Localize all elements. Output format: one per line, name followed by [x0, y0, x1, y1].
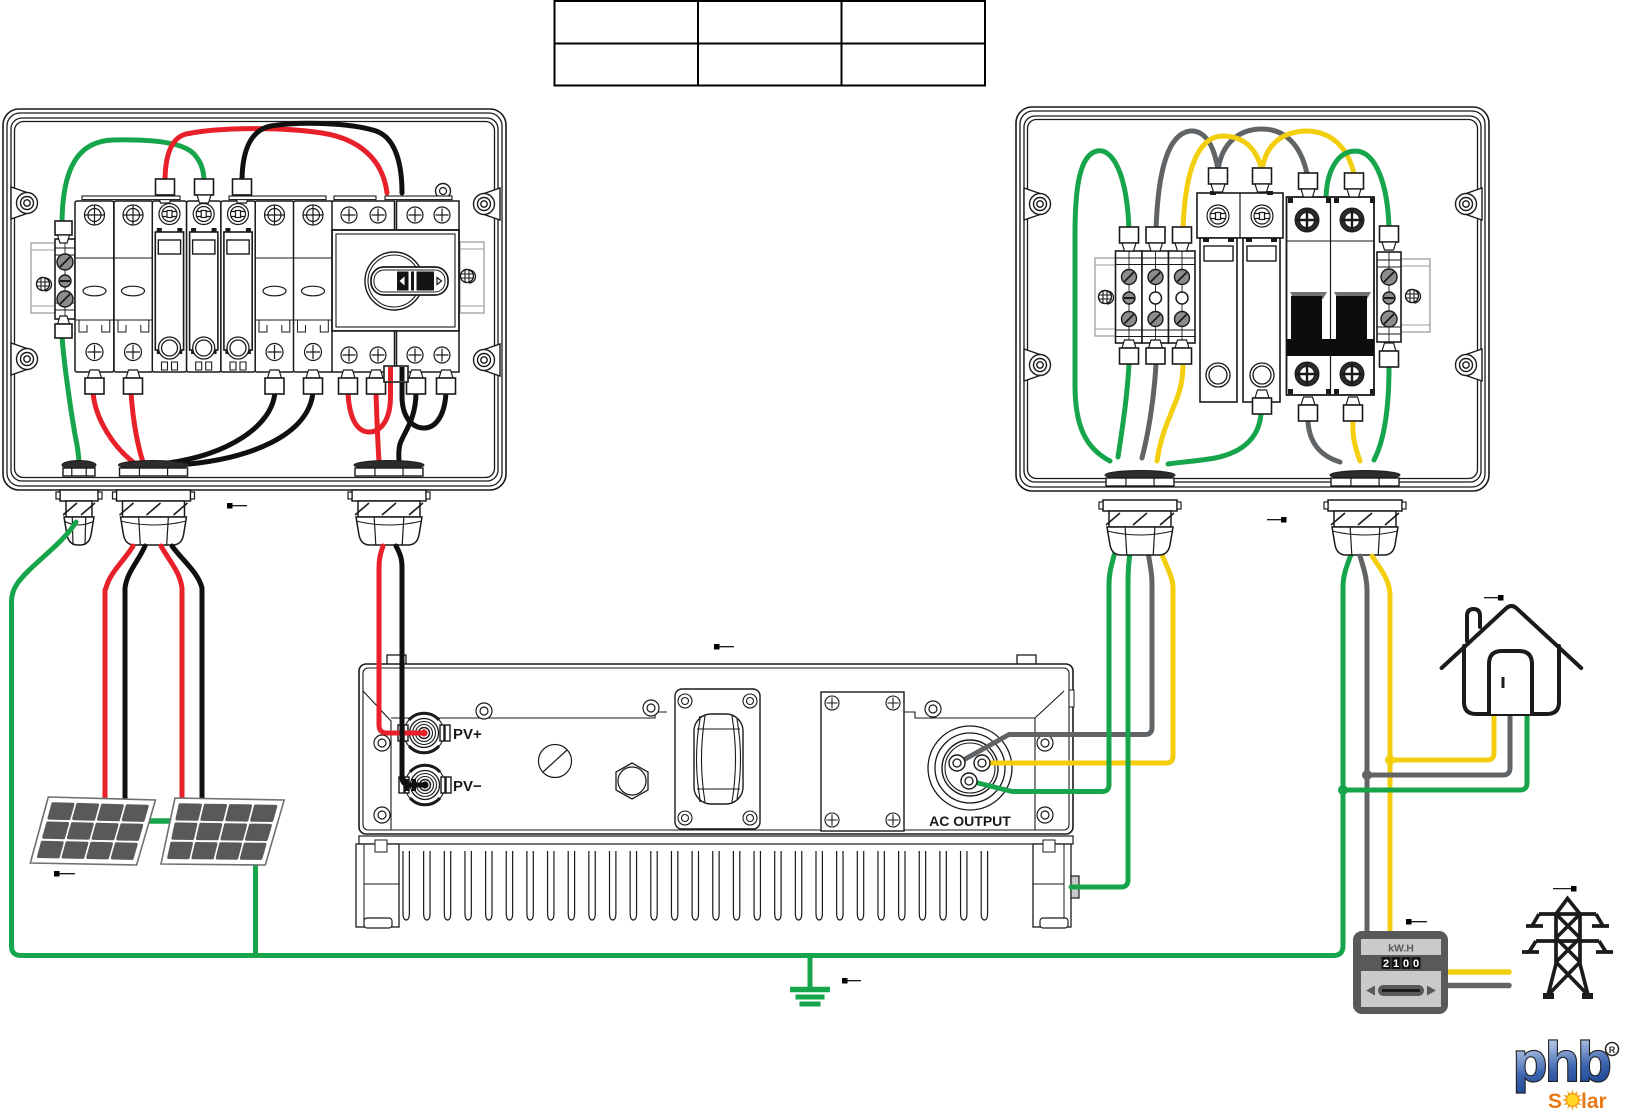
inverter PV+ connector [398, 713, 450, 753]
inverter body [359, 655, 1074, 834]
AC circuit breaker (2-pole) [1287, 197, 1376, 395]
inverter display window [675, 689, 760, 829]
inverter face screws [476, 703, 492, 719]
svg-text:PV−: PV− [453, 778, 482, 795]
kWh meter [1353, 931, 1448, 1014]
wire: green terminal 1 bottom to gland 1 [1118, 364, 1129, 457]
wire: yellow jumper terminal 3 to SPD B top [1183, 136, 1262, 230]
wire: black PV- jumper from SPD3 top over to DC switch input [242, 123, 402, 193]
svg-text:PV+: PV+ [453, 726, 482, 743]
cable gland 1 (inverter side, right box) [1099, 471, 1181, 556]
DIN rail stub left of DC box [31, 243, 57, 313]
junction dot yellow [1385, 755, 1395, 765]
cable gland 2 (grid side, right box) [1324, 471, 1406, 556]
wire: yellow breaker pole 2 bottom to gland 2 [1353, 421, 1360, 461]
wire: gray meter output to grid [1448, 983, 1509, 989]
surge protector module SPD3 (DC SPD) [221, 201, 255, 372]
DC fuse holder F3 [255, 201, 294, 394]
feed-through block under switch [384, 366, 408, 382]
junction dot gray [1362, 770, 1372, 780]
wire: red from switch terminal 2 down to gland C [376, 392, 379, 462]
svg-text:1: 1 [1393, 958, 1399, 970]
enclosure DC combiner box (outer shell) [3, 109, 506, 490]
wire: green from earth terminal down to gland A [62, 336, 79, 464]
AC surge protector (2 modules) [1197, 191, 1283, 402]
wire: red from fuse F1 bottom to gland B [93, 392, 133, 462]
mounting screw boss of DC combiner box [484, 344, 500, 376]
surge protector module SPD1 (DC SPD) [152, 201, 186, 372]
top bus bar segments (left box) [82, 196, 452, 200]
wire: green branch to house [1343, 714, 1527, 790]
earth terminal block (left box) [55, 221, 75, 338]
wire: black from fuse F3 bottom to gland B [168, 392, 275, 463]
DC fuse holder F1 [75, 201, 114, 394]
svg-text:R: R [1609, 1045, 1616, 1055]
wire: PV string 2 positive (red) gland B to panel 2 [161, 546, 182, 800]
wire: green link between panel 1 and panel 2 [145, 818, 175, 824]
wire: yellow terminal 3 bottom to gland 1 [1157, 364, 1183, 461]
wire: red DC+ gland C to inverter PV+ [379, 546, 424, 733]
DIN rail clamp bolt right AC [1406, 290, 1421, 304]
inverter round knockout [539, 745, 572, 778]
svg-text:0: 0 [1413, 958, 1419, 970]
wire: green big loop from terminal 1 top down to gland 1 [1075, 151, 1129, 461]
cable gland A (earth, left box) [56, 461, 102, 546]
enclosure AC combiner box (outer shell) [1016, 107, 1489, 491]
terminal block module TB2 (L) [1142, 227, 1169, 364]
wire: yellow AC N from inverter to right box gland 1 [983, 552, 1173, 763]
inverter hex gland [616, 763, 648, 799]
wire: green AC PE from inverter to right box gland 1 [970, 552, 1115, 792]
wire: PV string 2 negative (black) gland B to panel 2 [172, 546, 202, 800]
solar panel PV2 [161, 798, 284, 865]
wire: gray jumper terminal 2 to SPD A top [1156, 131, 1218, 230]
SPD A top connector [1209, 168, 1228, 184]
callout marker near right box gland [1281, 517, 1287, 523]
top connector of SPD1 [156, 179, 175, 195]
mounting screw boss of AC combiner box [1024, 349, 1040, 381]
DIN rail stub right of AC box [1401, 259, 1430, 332]
DC fuse holder F4 [294, 201, 333, 394]
breaker pole 1 bottom connector [1301, 397, 1315, 405]
breaker pole 2 top connector [1345, 173, 1364, 189]
DIN rail clamp bolt left AC [1099, 291, 1114, 305]
surge protector module SPD2 (DC SPD) [187, 201, 221, 372]
wire: gray AC L from inverter to right box gland 1 [958, 552, 1152, 763]
wire: gray breaker pole 1 bottom to gland 2 [1308, 421, 1340, 462]
mounting screw boss of AC combiner box [1024, 188, 1040, 220]
DIN rail stub right of DC box [460, 242, 484, 313]
svg-text:kW.H: kW.H [1388, 943, 1414, 955]
svg-text:phb: phb [1513, 1030, 1610, 1093]
SPD B top connector [1253, 168, 1272, 184]
callout marker near panel 1 [54, 871, 60, 877]
junction dot green [1338, 785, 1348, 795]
end earth terminal (right box) [1377, 226, 1401, 367]
wire: red PV+ jumper from SPD1 top over to DC switch input [165, 129, 387, 193]
callout marker near house [1498, 595, 1504, 601]
mounting screw boss of AC combiner box [1466, 349, 1482, 381]
wire: yellow N from gland 2 down to kWh meter [1372, 556, 1390, 931]
wire: PV string 1 negative (black) gland B to panel 1 [125, 546, 145, 800]
wire: black U-link switch terminal 4 to feed-through [402, 369, 446, 428]
DIN rail clamp bolt left DC [37, 278, 52, 292]
wire: PV string 1 positive (red) gland B to panel 1 [105, 546, 133, 800]
earth/ground symbol [790, 956, 830, 1005]
wire: gray jumper SPD A top to breaker pole 1 [1218, 129, 1307, 174]
inverter heatsink [356, 836, 1079, 928]
callout marker near ground symbol [842, 978, 848, 984]
inverter cover plate [821, 692, 904, 831]
switch bottom terminals [341, 370, 355, 378]
wire: main PE/earth bus (green) from gland A around bottom up to right box gland 2 [12, 522, 1353, 956]
wire: yellow meter output to grid [1448, 969, 1509, 975]
SPD B bottom connector [1255, 390, 1269, 398]
wire: gray branch to house [1367, 714, 1510, 775]
wire: yellow jumper SPD B top to breaker pole 2 [1262, 131, 1354, 174]
terminal block module TB3 (N) [1169, 227, 1196, 364]
callout marker near gland B [227, 503, 233, 509]
callout marker near meter [1406, 919, 1412, 925]
wire: green SPD B bottom to gland 1 [1168, 414, 1261, 464]
DIN rail clamp bolt right DC [461, 270, 476, 284]
wire: black from switch terminal 3 down to gland C [399, 392, 416, 462]
inverter AC OUTPUT connector [928, 726, 1012, 810]
mounting screw boss of DC combiner box [484, 188, 500, 220]
breaker pole 2 bottom connector [1346, 397, 1360, 405]
inverter PV- connector [399, 765, 451, 805]
wire: gray terminal 2 bottom to gland 1 [1142, 364, 1156, 458]
house icon [1442, 606, 1582, 714]
breaker pole 1 top connector [1299, 173, 1318, 189]
terminal block module TB1 (PE) [1116, 227, 1143, 364]
wire: green chassis earth from gland 1 to heatsink lug [1071, 552, 1130, 887]
wire: green PE jumper from earth terminal to SPD2 top [62, 140, 204, 225]
transmission tower icon [1522, 899, 1613, 1000]
wire: gray L from gland 2 down to kWh meter [1360, 556, 1367, 931]
svg-text:2: 2 [1383, 958, 1389, 970]
wire: black from fuse F4 bottom to gland B [177, 392, 313, 465]
AC connector pins [949, 755, 990, 789]
top connector of SPD2 [195, 179, 214, 195]
wire: green end terminal bottom to gland 2 [1374, 367, 1389, 460]
wire: green earth from panel 2 frame down to earth bus [253, 863, 258, 953]
top connector of SPD3 [233, 179, 252, 195]
solar panel PV1 [30, 797, 155, 865]
wire: red U-link switch terminal 1 to feed-through [348, 369, 391, 432]
wire: yellow branch to house [1390, 714, 1494, 760]
svg-text:lar: lar [1581, 1090, 1607, 1113]
svg-text:0: 0 [1403, 958, 1409, 970]
phb Solar logo [1513, 1030, 1619, 1113]
wire: green jumper SPD earth to end terminal top [1326, 151, 1389, 229]
cable gland B (PV strings, left box) [113, 461, 195, 546]
DC isolator switch Q1 [332, 184, 459, 373]
revision table (empty 3x2) [555, 1, 986, 86]
mounting screw boss of AC combiner box [1466, 188, 1482, 220]
DIN rail stub left of AC box [1095, 258, 1116, 336]
svg-text:AC OUTPUT: AC OUTPUT [929, 813, 1011, 829]
wire: black DC- gland C to inverter PV- [396, 546, 425, 785]
DC fuse holder F2 [114, 201, 153, 394]
svg-text:S: S [1548, 1090, 1562, 1113]
callout marker near tower [1571, 886, 1577, 892]
cable gland C (to inverter, left box) [348, 461, 430, 546]
wire: red from fuse F2 bottom to gland B [131, 392, 143, 462]
callout marker above inverter [714, 644, 720, 650]
mounting screw boss of DC combiner box [11, 343, 27, 375]
mounting screw boss of DC combiner box [11, 187, 27, 219]
